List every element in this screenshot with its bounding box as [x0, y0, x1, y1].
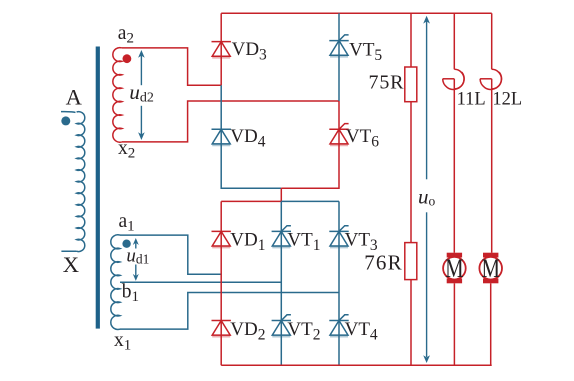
svg-text:12L: 12L: [492, 90, 522, 110]
wire VT3/VT4 branch: [338, 201, 340, 365]
svg-text:M: M: [445, 254, 464, 283]
thyristor VT1: [272, 226, 291, 247]
wire x2 to VT5/VT6 node: [122, 101, 339, 142]
resistor 76R: [405, 243, 417, 280]
thyristor VT5: [329, 35, 348, 56]
wire VT5 branch: [338, 13, 340, 101]
a2 polarity dot: [123, 54, 132, 63]
svg-text:75R: 75R: [369, 71, 405, 93]
thyristor VT6: [329, 124, 348, 145]
diode VD2: [212, 321, 231, 337]
wire VD3 branch: [220, 13, 222, 85]
diode VD4: [212, 129, 231, 145]
inductor 12L: [480, 13, 501, 252]
resistor branch wire: [410, 13, 412, 365]
motor M1: [443, 253, 466, 366]
wire a2 to VD3/VD4 node: [122, 48, 221, 85]
lower bridge top rail right: [281, 200, 339, 202]
wire VT6 branch to bridge mid: [281, 101, 339, 188]
wire VD1/VD2 branch: [220, 201, 222, 365]
top supply rail: [221, 12, 492, 14]
wire VT1/VT2 branch: [280, 201, 282, 365]
wire VD4 branch to bridge mid: [221, 85, 281, 188]
ud1 measuring arrow: [135, 241, 137, 278]
wire b1 to VT1/VT2 node: [120, 281, 281, 283]
svg-text:M: M: [481, 254, 500, 283]
lower bridge top rail left: [221, 200, 281, 202]
svg-text:11L: 11L: [457, 90, 486, 110]
thyristor VT3: [329, 226, 348, 247]
thyristor VT2: [272, 315, 291, 336]
diode VD1: [212, 231, 231, 247]
thyristor VT4: [329, 315, 348, 336]
bottom rail: [221, 364, 492, 366]
resistor 75R: [405, 67, 417, 102]
inductor 11L: [443, 13, 464, 252]
svg-text:A: A: [66, 85, 83, 110]
node A dot: [61, 116, 70, 125]
wire a1 to VD1/VD2 node: [120, 235, 221, 274]
svg-text:X: X: [63, 252, 79, 277]
primary winding A-X: [61, 112, 85, 252]
wire x1 to VT3/VT4 node: [120, 293, 339, 330]
secondary winding a2-x2: [113, 48, 122, 143]
motor M2: [479, 253, 502, 366]
secondary winding a1-b1-x1: [111, 235, 120, 330]
uo output-voltage arrow: [426, 20, 428, 357]
transformer core: [96, 47, 100, 329]
a1 polarity dot: [122, 240, 130, 248]
ud2 measuring arrow: [140, 53, 142, 137]
svg-text:76R: 76R: [364, 251, 403, 275]
diode VD3: [212, 42, 231, 58]
jumper between bridges: [280, 188, 282, 201]
